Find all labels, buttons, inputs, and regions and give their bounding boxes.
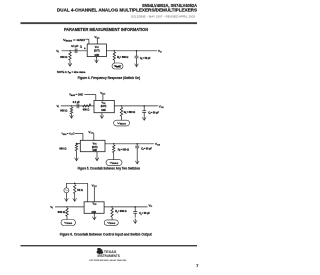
- svg-text:= 50 pF: = 50 pF: [142, 212, 150, 215]
- svg-text:7: 7: [196, 264, 198, 268]
- svg-text:= 600 Ω: = 600 Ω: [120, 56, 129, 59]
- svg-text:= 600 Ω: = 600 Ω: [121, 148, 130, 151]
- svg-text:TEXAS: TEXAS: [104, 249, 117, 254]
- svg-text:600 Ω: 600 Ω: [83, 108, 90, 111]
- svg-text:SCLS390E – MAY 1997 – REVISED: SCLS390E – MAY 1997 – REVISED APRIL 2003: [131, 15, 196, 19]
- svg-text:NOTE A: fIN = sine wave.: NOTE A: fIN = sine wave.: [57, 71, 86, 74]
- svg-text:GND: GND: [92, 211, 97, 214]
- svg-text:0.1 µF: 0.1 µF: [71, 45, 78, 48]
- svg-text:600 Ω: 600 Ω: [58, 211, 66, 214]
- svg-text:Figure 4. Frequency Response (: Figure 4. Frequency Response (Switch On): [78, 76, 141, 80]
- svg-text:GND: GND: [101, 109, 106, 112]
- svg-text:= 50 pF: = 50 pF: [144, 147, 152, 150]
- svg-text:GND: GND: [95, 54, 100, 57]
- svg-text:= 600 Ω: = 600 Ω: [118, 210, 127, 213]
- svg-text:50 Ω: 50 Ω: [77, 189, 83, 192]
- svg-text:PARAMETER MEASUREMENT INFORMAT: PARAMETER MEASUREMENT INFORMATION: [64, 27, 148, 32]
- svg-text:Figure 6. Crosstalk Between Co: Figure 6. Crosstalk Between Control Inpu…: [60, 232, 153, 236]
- svg-text:600 Ω: 600 Ω: [60, 110, 67, 113]
- svg-text:DUAL 4-CHANNEL ANALOG MULTIPLE: DUAL 4-CHANNEL ANALOG MULTIPLEXERS/DEMUL…: [57, 8, 197, 13]
- svg-text:= 50 pF: = 50 pF: [143, 57, 151, 60]
- svg-text:600 Ω: 600 Ω: [60, 56, 67, 59]
- svg-text:600 Ω: 600 Ω: [59, 147, 66, 150]
- svg-text:GND: GND: [92, 149, 97, 152]
- svg-text:(DUT): (DUT): [101, 105, 107, 108]
- svg-text:(DUT): (DUT): [94, 49, 100, 52]
- svg-text:POST OFFICE BOX 655303 • DALLA: POST OFFICE BOX 655303 • DALLAS, TEXAS 7…: [89, 259, 127, 262]
- svg-text:Figure 5. Crosstalk Between An: Figure 5. Crosstalk Between Any Two Swit…: [78, 167, 141, 171]
- svg-text:INSTRUMENTS: INSTRUMENTS: [98, 254, 121, 258]
- svg-text:= 600 Ω: = 600 Ω: [127, 111, 136, 114]
- svg-text:0.1 µF: 0.1 µF: [73, 101, 80, 104]
- svg-text:= 50 pF: = 50 pF: [151, 111, 159, 114]
